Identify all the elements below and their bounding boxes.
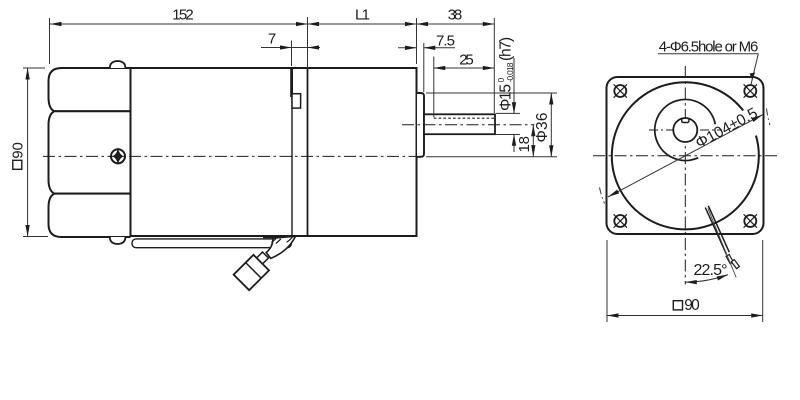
dim 38 [417,7,495,113]
svg-text:L1: L1 [355,7,370,24]
dim phi15 h7 [496,37,520,152]
motor body [131,68,417,236]
shaft centerline [402,124,535,126]
svg-text:38: 38 [448,7,463,24]
dim 18 [516,125,533,157]
motor pilot circle [655,99,715,160]
svg-text:7: 7 [268,31,276,48]
label 4-phi6.5 hole [658,39,759,85]
cable exit wedge [263,236,288,238]
svg-text:18: 18 [516,136,533,153]
shaft keyway slot [682,119,689,123]
shaft keyway dashed line [434,117,495,119]
svg-text:Φ15: Φ15 [498,84,515,111]
gearhead bottom bump [110,237,126,244]
dim 7 [261,31,320,67]
bolt hole bottom-left [614,214,627,227]
mounting screw symbol [111,147,125,166]
cable stub [259,256,265,262]
svg-text:4-Φ6.5hole or M6: 4-Φ6.5hole or M6 [659,39,759,56]
connector plug [234,255,269,290]
gearhead lobe 3 [49,194,131,237]
svg-text:22.5°: 22.5° [694,262,728,279]
dim 7.5 [398,33,455,93]
dim square90 left [10,68,49,237]
svg-text:-0.018: -0.018 [505,62,515,82]
bolt hole bottom-right [744,214,757,227]
shaft horizontal centerline [649,129,722,131]
svg-text:7.5: 7.5 [436,33,455,50]
svg-text:152: 152 [172,7,194,24]
svg-text:90: 90 [684,297,700,314]
gearhead top bump [110,61,126,68]
dim L1 [308,7,417,68]
gearhead lobe 2 [49,111,131,193]
shaft circle [673,118,697,142]
front view vertical centerline [684,66,686,285]
cable funnel [266,236,295,258]
front view horizontal centerline [593,155,778,157]
body seam line [291,68,293,236]
dim phi104 diagonal [600,105,771,204]
dim 152 [50,7,308,64]
svg-text:Φ36: Φ36 [534,113,551,143]
bolt hole top-left [614,84,627,97]
bolt hole top-right [744,84,757,97]
bottom cover plate [132,239,291,248]
seam tab [292,94,301,108]
output shaft [424,114,495,134]
svg-text:90: 90 [10,142,27,159]
gearhead lobe 1 [49,68,131,111]
body section line [307,68,309,236]
svg-text:(h7): (h7) [498,37,515,61]
cable small square [257,252,269,264]
shaft boss [417,93,424,157]
front view square flange [607,77,764,234]
svg-text:25: 25 [459,51,474,68]
front cable wires [705,206,739,269]
dim 22.5 degrees [685,209,736,283]
dim phi36 [426,93,557,157]
dim 25 [434,51,495,117]
side view centerline [43,155,417,157]
gearbox big circle [612,82,759,229]
dim square90 bottom [607,240,763,322]
